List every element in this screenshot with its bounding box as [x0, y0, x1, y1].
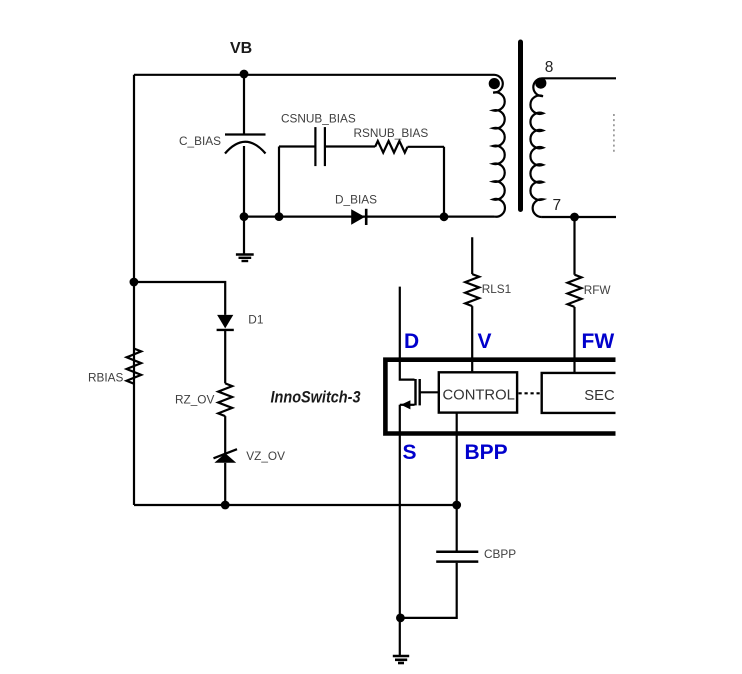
- transformer secondary winding: [530, 78, 542, 217]
- wire D1 to RZ_OV: [224, 330, 226, 384]
- wire S pin: [399, 405, 401, 656]
- wire snubber mid segment: [325, 145, 375, 147]
- secondary winding phase dot: [535, 78, 546, 89]
- wire snubber left leg: [278, 147, 280, 217]
- ground (S pin): [393, 656, 409, 663]
- svg-text:CONTROL: CONTROL: [443, 387, 515, 403]
- label SEC (clipped): [584, 388, 678, 404]
- box CONTROL: [439, 372, 517, 412]
- resistor RLS1: [465, 274, 479, 306]
- wire snubber top right segment: [408, 146, 445, 148]
- wire snubber top left segment: [279, 145, 315, 147]
- wire FW pin / RFW leads: [573, 217, 575, 373]
- svg-text:8: 8: [545, 59, 554, 76]
- wire secondary top: [542, 77, 616, 79]
- wire bias bottom rail: [244, 216, 495, 218]
- bias winding phase dot: [489, 78, 500, 89]
- wire V pin / RLS1 leads: [471, 237, 473, 371]
- node BPP rail junction: [452, 501, 461, 510]
- transformer core: [518, 42, 523, 210]
- svg-text:D_BIAS: D_BIAS: [335, 193, 377, 207]
- IC InnoSwitch-3 outline: [385, 360, 615, 434]
- svg-text:RLS1: RLS1: [482, 282, 512, 296]
- wire top rail VB: [134, 74, 495, 76]
- wire left vertical rail: [133, 75, 135, 505]
- resistor RSNUB_BIAS: [375, 141, 407, 153]
- wire BPP pin: [456, 413, 458, 551]
- capacitor CBPP: [400, 552, 478, 618]
- svg-text:RBIAS: RBIAS: [88, 371, 124, 385]
- svg-text:V: V: [478, 330, 492, 353]
- diode D1: [217, 315, 234, 330]
- svg-text:InnoSwitch-3: InnoSwitch-3: [271, 389, 361, 407]
- wire D pin: [400, 287, 415, 380]
- node snubber right: [440, 212, 449, 221]
- wire branch top: [134, 282, 225, 315]
- wire snubber right leg: [443, 147, 445, 217]
- resistor RFW: [568, 275, 582, 307]
- node zener bottom: [221, 501, 230, 510]
- box SECONDARY (clipped): [542, 373, 616, 413]
- svg-text:BPP: BPP: [465, 441, 508, 464]
- svg-text:VZ_OV: VZ_OV: [246, 449, 285, 463]
- wire RZ_OV to VZ_OV: [224, 416, 226, 454]
- wire secondary bottom: [542, 216, 616, 218]
- wire bottom left rail: [134, 504, 457, 506]
- ground (bias): [236, 217, 254, 261]
- node S ground junction: [396, 614, 405, 623]
- diode D_BIAS: [351, 209, 366, 225]
- node dot VB: [240, 70, 249, 79]
- svg-text:RFW: RFW: [584, 283, 612, 297]
- node snubber left: [275, 212, 284, 221]
- capacitor CSNUB_BIAS: [315, 127, 325, 166]
- transformer bias winding: [493, 75, 505, 217]
- svg-text:C_BIAS: C_BIAS: [179, 134, 221, 148]
- node left branch: [130, 278, 139, 287]
- resistor RBIAS: [127, 349, 142, 384]
- transistor Q1 (MOSFET inside IC): [400, 379, 439, 409]
- svg-text:CSNUB_BIAS: CSNUB_BIAS: [281, 112, 356, 126]
- svg-text:D1: D1: [248, 313, 263, 327]
- svg-text:VB: VB: [230, 40, 252, 57]
- resistor RZ_OV: [218, 383, 232, 416]
- svg-text:CBPP: CBPP: [484, 547, 516, 561]
- svg-text:RZ_OV: RZ_OV: [175, 392, 214, 406]
- dashed link CONTROL to SEC: [519, 392, 542, 394]
- svg-text:RSNUB_BIAS: RSNUB_BIAS: [354, 126, 429, 140]
- dashed crop line: [613, 114, 615, 154]
- svg-text:D: D: [404, 330, 419, 353]
- svg-text:FW: FW: [582, 330, 615, 353]
- zener VZ_OV: [214, 449, 238, 463]
- capacitor C_BIAS: [225, 75, 266, 217]
- wire VZ_OV to rail: [224, 463, 226, 505]
- node bias bottom (C_BIAS): [240, 212, 249, 221]
- svg-text:S: S: [403, 441, 417, 464]
- node secondary FW tap: [570, 213, 579, 222]
- svg-text:7: 7: [553, 197, 562, 214]
